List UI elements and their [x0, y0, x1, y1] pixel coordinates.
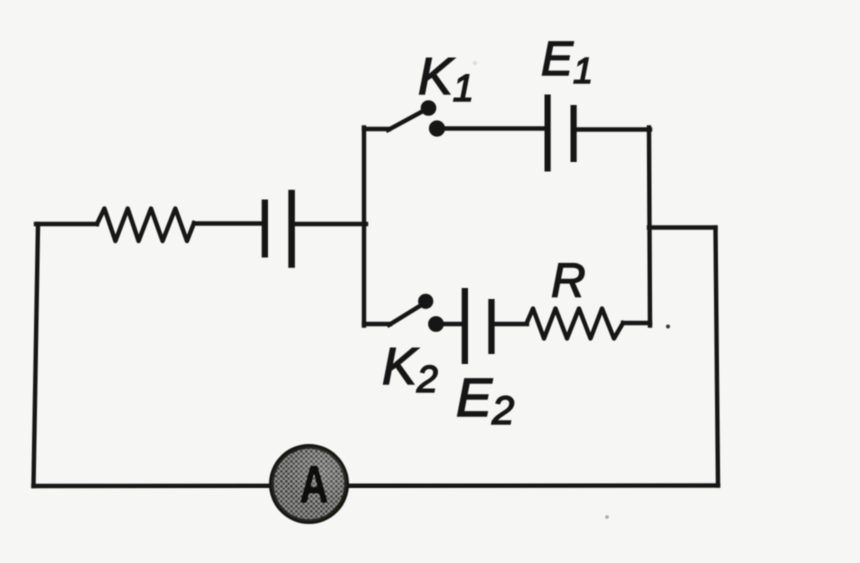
wire resistor R to right junction [623, 321, 650, 325]
node left junction vertical [362, 128, 366, 326]
battery E1 long plate (left) [545, 95, 551, 172]
switch K2 upper contact dot [418, 294, 433, 309]
wire bottom [34, 483, 719, 488]
wire E2 to resistor R [494, 322, 527, 326]
svg-text:E1: E1 [541, 33, 593, 91]
switch K2 blade [389, 304, 423, 325]
stray speck [666, 325, 670, 329]
wire switch K2 to E2 [443, 322, 462, 326]
wire right lower vertical [716, 228, 719, 486]
switch K2 lower contact dot [428, 316, 444, 332]
ammeter A body [272, 447, 347, 522]
resistor R zigzag [527, 309, 624, 339]
battery E2 short plate (right) [488, 299, 494, 354]
resistor (left, unlabeled) [97, 209, 194, 242]
battery plate middle long (right) [288, 190, 295, 268]
svg-text:K2: K2 [382, 338, 438, 401]
wire middle left segment [36, 222, 97, 226]
wire bottom branch left stub [364, 322, 390, 326]
wire middle right horizontal [649, 225, 716, 229]
battery E2 long plate (left) [462, 288, 468, 364]
wire battery to junction [295, 222, 366, 226]
svg-text:E2: E2 [456, 368, 514, 433]
svg-text:K1: K1 [418, 48, 474, 110]
battery E1 short plate (right) [571, 105, 577, 162]
switch K1 blade [388, 110, 425, 130]
svg-text:R: R [551, 255, 586, 308]
wire E1 to right junction [576, 127, 650, 131]
wire top branch left stub [364, 127, 389, 131]
wire resistor to battery [194, 221, 261, 225]
battery plate middle short (left) [262, 200, 268, 258]
faint smudge near K1 [473, 61, 477, 65]
wire left vertical [34, 224, 39, 486]
node right junction vertical [649, 128, 650, 326]
switch K1 lower contact dot [429, 120, 445, 136]
wire switch K1 to E1 [443, 126, 545, 130]
faint speck bottom [605, 515, 609, 519]
svg-text:A: A [300, 455, 329, 514]
switch K1 upper contact dot [421, 100, 437, 116]
